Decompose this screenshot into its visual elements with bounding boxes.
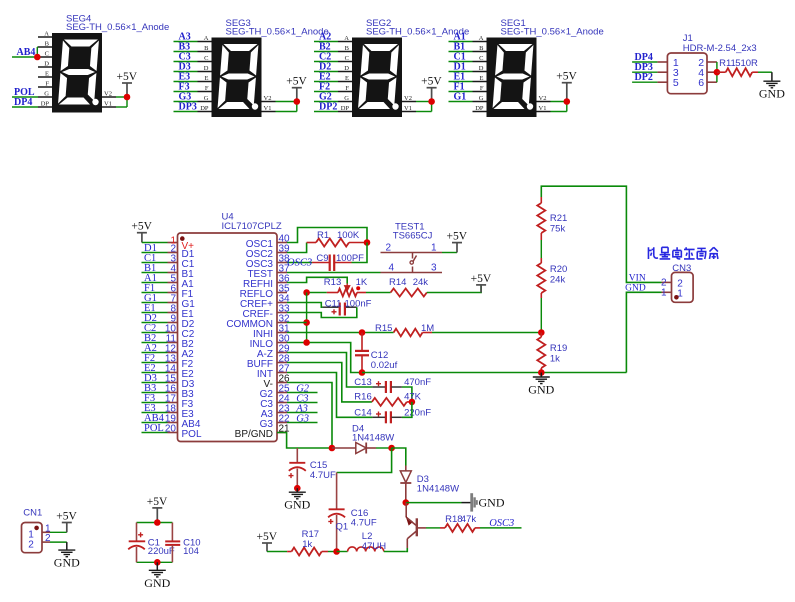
display SEG4 pin E bbox=[38, 76, 52, 78]
display SEG1 pin F bbox=[473, 91, 487, 93]
ground GND (J1) bbox=[771, 72, 773, 81]
connector CN1 bbox=[22, 523, 43, 553]
display SEG3 pin D bbox=[198, 71, 212, 73]
svg-text:75k: 75k bbox=[550, 224, 566, 235]
svg-text:A: A bbox=[479, 35, 484, 42]
wire net AB4 bbox=[142, 422, 168, 424]
svg-text:0.02uf: 0.02uf bbox=[371, 360, 398, 371]
display SEG4 pin B bbox=[38, 46, 52, 48]
wire net F2 bbox=[314, 91, 338, 93]
U4 pin 28 BUFF bbox=[277, 362, 287, 364]
U4 pin 34 CREF+ bbox=[277, 302, 287, 304]
svg-text:100K: 100K bbox=[337, 230, 360, 241]
wire net G1 bbox=[142, 302, 168, 304]
J1 pin 3 bbox=[657, 71, 667, 73]
resistor R17 1k bbox=[287, 551, 291, 553]
wire net C2 bbox=[314, 61, 338, 63]
svg-text:GND: GND bbox=[759, 87, 785, 101]
junction dot top bbox=[154, 519, 161, 526]
svg-text:R15: R15 bbox=[375, 323, 392, 334]
J1 pin 5 bbox=[657, 81, 667, 83]
resistor R1 100K bbox=[307, 242, 316, 244]
svg-text:F: F bbox=[45, 81, 49, 88]
junction dot bbox=[294, 98, 301, 105]
wire net D3 bbox=[174, 71, 198, 73]
wire V1 loop bbox=[116, 106, 127, 108]
svg-text:DP3: DP3 bbox=[179, 102, 197, 113]
U4 pin 39 OSC2 bbox=[277, 252, 287, 254]
svg-text:R1: R1 bbox=[317, 230, 329, 241]
wire net C2 bbox=[142, 332, 168, 334]
capacitor C13 470nF bbox=[372, 386, 385, 388]
power +5V (CN1) bbox=[62, 522, 72, 524]
display SEG2 pin V2 bbox=[402, 101, 416, 103]
U4 pin 10 C2 bbox=[168, 332, 178, 334]
wire net C1 bbox=[449, 61, 473, 63]
wire INT to C14 bbox=[287, 373, 372, 418]
svg-text:E: E bbox=[205, 75, 209, 82]
display SEG3 pin V2 bbox=[262, 101, 276, 103]
wire D4 cathode bbox=[376, 447, 392, 449]
7-seg display SEG4 bbox=[52, 33, 102, 113]
CN3 pin1 marker bbox=[674, 295, 679, 300]
inductor L2 47UH bbox=[337, 551, 348, 553]
svg-text:+5V: +5V bbox=[471, 273, 492, 285]
net label C3 (pin24) bbox=[287, 402, 318, 404]
display SEG4 pin A bbox=[38, 36, 52, 38]
wire CN1 pin1 to +5V bbox=[50, 531, 67, 533]
wire TEST1 pin1 to +5V bbox=[442, 252, 457, 254]
display SEG2 pin V1 bbox=[402, 111, 416, 113]
svg-text:CN3: CN3 bbox=[672, 263, 691, 274]
svg-text:DP4: DP4 bbox=[14, 97, 32, 108]
svg-text:BP/GND: BP/GND bbox=[235, 429, 273, 440]
connector CN3 bbox=[672, 272, 694, 302]
svg-text:+5V: +5V bbox=[556, 71, 577, 83]
ground GND (R19) bbox=[540, 373, 542, 378]
wire net AB4 bbox=[12, 56, 38, 58]
svg-text:DP: DP bbox=[475, 105, 484, 112]
wire R14 to +5V bbox=[427, 285, 481, 293]
U4 pin 36 REFHI bbox=[277, 282, 287, 284]
U4 pin 2 D1 bbox=[168, 252, 178, 254]
junction dot J1 pin4 bbox=[714, 69, 721, 76]
wire V2 to +5V bbox=[116, 96, 127, 98]
wire Q1 collector to L2 bbox=[406, 548, 408, 552]
wire BUFF to R16 bbox=[287, 363, 372, 402]
wire net DP2 bbox=[314, 111, 338, 113]
U4 pin 5 A1 bbox=[168, 282, 178, 284]
U4 pin 33 CREF- bbox=[277, 312, 287, 314]
svg-text:24k: 24k bbox=[550, 275, 566, 286]
U4 pin 26 V- bbox=[277, 382, 287, 384]
junction dot OSC1/R1 bbox=[364, 239, 371, 246]
junction dot bbox=[564, 98, 571, 105]
svg-text:1N4148W: 1N4148W bbox=[352, 433, 394, 444]
svg-text:+5V: +5V bbox=[421, 76, 442, 88]
capacitor C16 4.7UF bbox=[336, 473, 338, 510]
wire net A1 bbox=[449, 41, 473, 43]
display SEG2 pin A bbox=[338, 41, 352, 43]
svg-text:CN1: CN1 bbox=[23, 508, 42, 519]
wire net C1 bbox=[142, 262, 168, 264]
U4 pin 21 BP/GND bbox=[277, 432, 287, 434]
svg-text:HDR-M-2.54_2x3: HDR-M-2.54_2x3 bbox=[683, 43, 757, 54]
svg-text:V2: V2 bbox=[264, 95, 272, 102]
svg-text:1N4148W: 1N4148W bbox=[417, 484, 459, 495]
wire net E1 bbox=[449, 81, 473, 83]
wire net A3 bbox=[174, 41, 198, 43]
display SEG4 pin G bbox=[38, 96, 52, 98]
svg-text:A: A bbox=[44, 31, 49, 38]
wire C14 right bbox=[402, 402, 412, 417]
display SEG3 pin B bbox=[198, 51, 212, 53]
trimmer R13 1K bbox=[307, 292, 327, 294]
resistor R19 1k bbox=[540, 333, 542, 338]
svg-text:R19: R19 bbox=[550, 343, 567, 354]
7-seg display SEG3 bbox=[212, 38, 262, 118]
U4 pin 18 E3 bbox=[168, 412, 178, 414]
wire net F3 bbox=[174, 91, 198, 93]
wire OSC2 to R1 bbox=[287, 243, 307, 253]
chinese caption bbox=[648, 247, 717, 259]
ground GND (C15) bbox=[296, 488, 298, 492]
display SEG1 pin B bbox=[473, 51, 487, 53]
svg-text:V1: V1 bbox=[104, 101, 112, 108]
wire net B3 bbox=[174, 51, 198, 53]
capacitor C14 220nF bbox=[372, 416, 385, 418]
wire V2 to +5V bbox=[416, 101, 432, 103]
display SEG1 pin V1 bbox=[537, 111, 551, 113]
display SEG3 pin G bbox=[198, 101, 212, 103]
svg-text:C13: C13 bbox=[354, 377, 371, 388]
svg-text:2: 2 bbox=[28, 539, 34, 550]
svg-text:+5V: +5V bbox=[56, 511, 77, 523]
wire C16 branch bbox=[337, 448, 392, 473]
svg-text:3: 3 bbox=[431, 263, 437, 274]
U4 pin 8 E1 bbox=[168, 312, 178, 314]
svg-text:C: C bbox=[45, 51, 49, 58]
ground GND (right style) bbox=[462, 502, 474, 504]
wire net E1 bbox=[142, 312, 168, 314]
capacitor C1 220uF bbox=[136, 523, 138, 542]
display SEG4 pin F bbox=[38, 86, 52, 88]
U4 pin 35 REFLO bbox=[277, 292, 287, 294]
svg-text:510R: 510R bbox=[735, 58, 758, 69]
capacitor C12 0.02uf bbox=[361, 333, 363, 351]
display SEG1 pin C bbox=[473, 61, 487, 63]
U4 pin 9 D2 bbox=[168, 322, 178, 324]
connector J1 HDR-M-2.54_2x3 bbox=[667, 53, 707, 94]
svg-text:4.7UF: 4.7UF bbox=[310, 470, 336, 481]
svg-text:A: A bbox=[344, 35, 349, 42]
svg-text:DP2: DP2 bbox=[319, 102, 337, 113]
wire V1 loop bbox=[416, 111, 432, 113]
svg-text:G: G bbox=[344, 95, 349, 102]
wire net B3 bbox=[142, 392, 168, 394]
wire REFHI to R13 wiper bbox=[287, 277, 347, 283]
display SEG2 pin G bbox=[338, 101, 352, 103]
svg-text:SEG-TH_0.56×1_Anode: SEG-TH_0.56×1_Anode bbox=[66, 22, 169, 33]
wire C13 right bbox=[402, 387, 412, 402]
wire GND rail bbox=[362, 372, 627, 374]
svg-text:1k: 1k bbox=[550, 354, 560, 365]
U4 pin 13 F2 bbox=[168, 362, 178, 364]
svg-text:F: F bbox=[205, 85, 209, 92]
wire D3 to GND bbox=[406, 502, 462, 504]
svg-text:F: F bbox=[345, 85, 349, 92]
U4 pin 22 G3 bbox=[277, 422, 287, 424]
wire net G1 bbox=[449, 101, 473, 103]
display SEG2 pin B bbox=[338, 51, 352, 53]
svg-text:V1: V1 bbox=[264, 105, 272, 112]
svg-text:B: B bbox=[45, 41, 50, 48]
display SEG4 pin C bbox=[38, 56, 52, 58]
svg-text:R21: R21 bbox=[550, 213, 567, 224]
svg-text:F: F bbox=[480, 85, 484, 92]
wire CREF+ to C11 bbox=[287, 303, 323, 308]
resistor R20 24k bbox=[540, 258, 542, 263]
svg-text:100nF: 100nF bbox=[345, 299, 372, 310]
wire net F3 bbox=[142, 402, 168, 404]
display SEG1 pin DP bbox=[473, 111, 487, 113]
wire V2 to +5V bbox=[276, 101, 297, 103]
svg-text:GND: GND bbox=[625, 283, 646, 293]
svg-text:B: B bbox=[204, 45, 209, 52]
J1 pin 1 bbox=[657, 61, 667, 63]
net label G3 (pin22) bbox=[287, 422, 318, 424]
wire CN1 pin2 to GND bbox=[50, 541, 67, 543]
svg-text:G: G bbox=[479, 95, 484, 102]
wire INLO bbox=[287, 343, 362, 373]
wire R18 to OSC3 bbox=[480, 527, 522, 529]
svg-text:1: 1 bbox=[431, 243, 437, 254]
J1 pin 4 bbox=[707, 71, 717, 73]
display SEG3 pin F bbox=[198, 91, 212, 93]
svg-text:DP2: DP2 bbox=[635, 72, 653, 83]
svg-text:DP: DP bbox=[341, 105, 350, 112]
wire net DP3 bbox=[632, 71, 657, 73]
wire net POL bbox=[12, 96, 38, 98]
wire net D1 bbox=[142, 252, 168, 254]
svg-text:4.7UF: 4.7UF bbox=[351, 518, 377, 529]
wire net DP4 bbox=[12, 106, 38, 108]
wire A-Z to C13 bbox=[287, 353, 372, 388]
junction dot R19 top bbox=[538, 329, 545, 336]
U4 pin 15 D3 bbox=[168, 382, 178, 384]
capacitor C9 100PF bbox=[312, 262, 329, 264]
wire V2 to +5V bbox=[551, 101, 567, 103]
junction dot D3/Q1 bbox=[403, 499, 410, 506]
U4 pin 24 C3 bbox=[277, 402, 287, 404]
svg-text:SEG-TH_0.56×1_Anode: SEG-TH_0.56×1_Anode bbox=[226, 27, 329, 38]
wire D4 to D3 bbox=[392, 448, 406, 466]
display SEG2 pin F bbox=[338, 91, 352, 93]
wire net B1 bbox=[142, 272, 168, 274]
svg-text:Q1: Q1 bbox=[336, 522, 349, 533]
svg-text:+5V: +5V bbox=[286, 76, 307, 88]
display SEG2 pin DP bbox=[338, 111, 352, 113]
wire net POL bbox=[142, 432, 168, 434]
resistor R14 24k bbox=[366, 292, 391, 294]
7-seg display SEG1 bbox=[487, 38, 537, 118]
svg-text:+5V: +5V bbox=[257, 531, 278, 543]
svg-text:E: E bbox=[45, 71, 49, 78]
U4 pin 32 COMMON bbox=[277, 322, 287, 324]
power +5V bbox=[562, 82, 572, 84]
svg-text:C9: C9 bbox=[316, 253, 328, 264]
diode D4 1N4148W bbox=[332, 447, 356, 449]
capacitor C11 100nF bbox=[323, 306, 339, 308]
svg-text:100PF: 100PF bbox=[336, 253, 364, 264]
svg-text:G: G bbox=[44, 91, 49, 98]
display SEG4 pin DP bbox=[38, 106, 52, 108]
U4 pin 38 OSC3 bbox=[277, 262, 287, 264]
display SEG1 pin E bbox=[473, 81, 487, 83]
CN3 pin 2 VIN bbox=[662, 281, 672, 283]
display SEG4 pin D bbox=[38, 66, 52, 68]
wire net E3 bbox=[142, 412, 168, 414]
svg-text:G1: G1 bbox=[454, 92, 467, 103]
display SEG3 pin DP bbox=[198, 111, 212, 113]
wire net F1 bbox=[449, 91, 473, 93]
svg-text:GND: GND bbox=[144, 576, 170, 590]
display SEG2 pin C bbox=[338, 61, 352, 63]
U4 pin1 marker dot bbox=[180, 236, 185, 241]
resistor R21 75k bbox=[540, 197, 542, 203]
display SEG4 pin V1 bbox=[102, 106, 116, 108]
junction dot INLO bbox=[303, 339, 310, 346]
junction dot INHI/C12 bbox=[359, 329, 366, 336]
svg-text:V1: V1 bbox=[539, 105, 547, 112]
U4 pin 25 G2 bbox=[277, 392, 287, 394]
display SEG1 pin D bbox=[473, 71, 487, 73]
svg-text:D: D bbox=[44, 61, 49, 68]
svg-text:ICL7107CPLZ: ICL7107CPLZ bbox=[222, 221, 282, 232]
U4 pin 19 AB4 bbox=[168, 422, 178, 424]
U4 pin 11 B2 bbox=[168, 342, 178, 344]
svg-text:GND: GND bbox=[54, 556, 80, 570]
svg-text:V2: V2 bbox=[104, 91, 112, 98]
svg-text:TS665CJ: TS665CJ bbox=[393, 231, 433, 242]
svg-text:R13: R13 bbox=[324, 277, 341, 288]
wire net G2 bbox=[314, 101, 338, 103]
svg-text:G3: G3 bbox=[296, 413, 309, 424]
U4 pin 30 INLO bbox=[277, 342, 287, 344]
wire V1 loop bbox=[551, 111, 567, 113]
wire L2 to Q1 bbox=[384, 551, 406, 553]
junction dot C15/GND bbox=[294, 485, 301, 492]
svg-text:47UH: 47UH bbox=[362, 541, 386, 552]
wire Q1 base to R18 bbox=[426, 527, 440, 529]
display SEG4 pin V2 bbox=[102, 96, 116, 98]
wire net DP3 bbox=[174, 111, 198, 113]
wire R17 to junction bbox=[328, 551, 337, 553]
svg-text:+5V: +5V bbox=[117, 71, 138, 83]
U4 pin 23 A3 bbox=[277, 412, 287, 414]
wire COMMON bbox=[287, 322, 307, 324]
svg-text:GND: GND bbox=[528, 383, 554, 397]
svg-text:D: D bbox=[479, 65, 484, 72]
display SEG3 pin V1 bbox=[262, 111, 276, 113]
capacitor C15 4.7UF bbox=[296, 448, 298, 463]
wire net DP4 bbox=[632, 61, 657, 63]
svg-text:D: D bbox=[204, 65, 209, 72]
junction dot bbox=[428, 98, 435, 105]
junction dot bbox=[124, 94, 131, 101]
wire net D2 bbox=[314, 71, 338, 73]
display SEG1 pin V2 bbox=[537, 101, 551, 103]
U4 pin 20 POL bbox=[168, 432, 178, 434]
svg-text:C: C bbox=[204, 55, 208, 62]
CN1 pin 1 bbox=[42, 531, 50, 533]
CN1 pin1 marker bbox=[34, 526, 39, 531]
display SEG2 pin D bbox=[338, 71, 352, 73]
svg-text:+5V: +5V bbox=[147, 496, 168, 508]
wire net E3 bbox=[174, 81, 198, 83]
wire net G3 bbox=[174, 101, 198, 103]
U4 pin 7 G1 bbox=[168, 302, 178, 304]
svg-text:V2: V2 bbox=[539, 95, 547, 102]
wire V1 loop bbox=[276, 111, 297, 113]
U4 pin 6 F1 bbox=[168, 292, 178, 294]
U4 pin 14 E2 bbox=[168, 372, 178, 374]
junction dot bottom bbox=[154, 559, 161, 566]
svg-text:C11: C11 bbox=[325, 299, 342, 310]
svg-text:220uF: 220uF bbox=[148, 546, 175, 557]
power +5V bbox=[122, 82, 132, 84]
display SEG2 pin E bbox=[338, 81, 352, 83]
resistor R15 1M bbox=[394, 329, 423, 337]
wire TEST pin37 bbox=[287, 272, 381, 274]
svg-text:47k: 47k bbox=[461, 514, 477, 525]
svg-text:R20: R20 bbox=[550, 264, 567, 275]
svg-text:4: 4 bbox=[389, 263, 395, 274]
wire net F1 bbox=[142, 292, 168, 294]
wire +5V to pin1 bbox=[142, 242, 168, 244]
svg-text:AB4: AB4 bbox=[17, 47, 36, 58]
U4 pin 29 A-Z bbox=[277, 352, 287, 354]
junction dot R19 bottom bbox=[538, 369, 545, 376]
junction dot C12/GND bbox=[359, 369, 366, 376]
wire net B2 bbox=[142, 342, 168, 344]
wire +5V to R17 bbox=[267, 551, 287, 553]
svg-text:DP: DP bbox=[200, 105, 209, 112]
wire OSC1 loop bbox=[287, 228, 367, 243]
power +5V (R14) bbox=[476, 284, 486, 286]
wire R21 to R20 bbox=[540, 240, 542, 258]
svg-text:GND: GND bbox=[284, 498, 310, 512]
svg-text:OSC3: OSC3 bbox=[287, 258, 312, 269]
svg-text:A: A bbox=[204, 35, 209, 42]
svg-text:OSC3: OSC3 bbox=[489, 518, 514, 529]
wire REFLO chain bbox=[306, 293, 308, 343]
U4 pin 1 V+ bbox=[168, 242, 178, 244]
svg-text:2: 2 bbox=[386, 243, 392, 254]
wire OSC3 to C9 bbox=[287, 262, 312, 264]
junction dot AB4 bbox=[34, 54, 41, 61]
svg-text:POL: POL bbox=[182, 429, 202, 440]
display SEG3 pin E bbox=[198, 81, 212, 83]
display SEG3 pin A bbox=[198, 41, 212, 43]
wire J1 right pins common bbox=[716, 62, 718, 82]
svg-text:POL: POL bbox=[144, 423, 164, 434]
svg-text:R14: R14 bbox=[389, 277, 406, 288]
U4 pin 12 A2 bbox=[168, 352, 178, 354]
wire net D2 bbox=[142, 322, 168, 324]
power +5V bbox=[427, 87, 437, 89]
wire net D1 bbox=[449, 71, 473, 73]
